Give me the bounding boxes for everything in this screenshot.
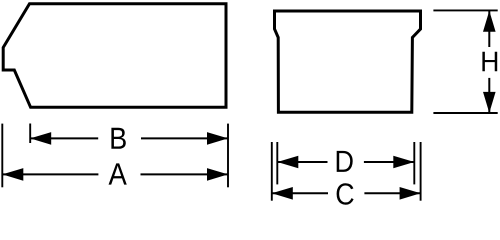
extension line right (A/B) <box>227 124 229 188</box>
extension line H top <box>433 9 497 11</box>
dimension line C with arrowheads <box>272 187 421 200</box>
label H <box>482 52 497 72</box>
extension line H bottom <box>433 112 497 114</box>
bin front view outline <box>275 11 421 112</box>
dimension line A with arrowheads <box>2 168 228 181</box>
extension line left (A) <box>1 124 3 188</box>
extension line C left <box>271 142 273 201</box>
label B <box>111 128 125 149</box>
label D <box>337 151 353 172</box>
dimension line D with arrowheads <box>277 156 414 169</box>
extension tick D right <box>413 142 415 184</box>
extension tick B left <box>29 124 31 144</box>
extension tick D left <box>276 142 278 184</box>
dimension line H with arrowheads <box>483 11 496 113</box>
extension line C right <box>420 142 422 201</box>
bin side view outline <box>3 4 226 108</box>
label A <box>109 163 127 184</box>
label C <box>337 183 354 205</box>
dimension line B with arrowheads <box>30 132 228 145</box>
